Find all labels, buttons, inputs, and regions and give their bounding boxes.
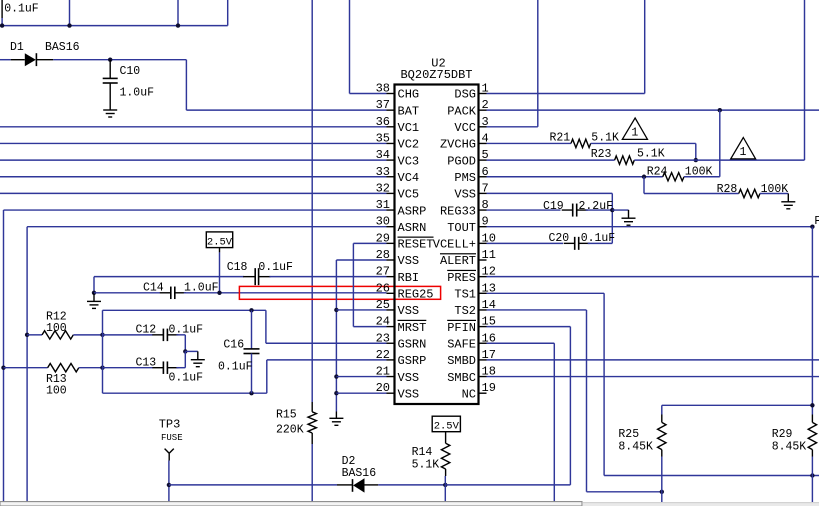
pin 5 PGOD stub xyxy=(479,159,487,161)
node junction xyxy=(810,225,814,229)
wire xyxy=(169,484,337,486)
pin 7 VSS stub xyxy=(479,192,487,194)
svg-text:1: 1 xyxy=(740,146,747,159)
wire xyxy=(586,209,613,211)
svg-text:1.0uF: 1.0uF xyxy=(120,87,155,100)
svg-text:SMBD: SMBD xyxy=(447,354,476,368)
resistor R25 xyxy=(661,415,663,423)
svg-text:C13: C13 xyxy=(136,356,157,369)
pin 32 VC5 stub xyxy=(387,192,395,194)
svg-text:TS1: TS1 xyxy=(454,288,476,302)
resistor R21 xyxy=(571,139,591,147)
node junction xyxy=(67,23,71,27)
svg-text:1: 1 xyxy=(631,126,638,139)
node junction xyxy=(183,349,187,353)
wire xyxy=(644,0,646,94)
wire pin 4 ZVCHG xyxy=(487,142,572,144)
wire to pin 27 RBI xyxy=(270,276,387,278)
node junction xyxy=(108,58,112,62)
capacitor C10 xyxy=(109,60,111,78)
wire xyxy=(79,367,103,369)
svg-text:R24: R24 xyxy=(647,166,668,179)
wire to pin 20 VSS xyxy=(336,392,386,394)
wire xyxy=(661,405,663,414)
wire to pin 35 VC2 xyxy=(0,142,387,144)
wire xyxy=(760,193,788,195)
pin 20 VSS stub xyxy=(387,392,395,394)
svg-text:19: 19 xyxy=(482,381,496,395)
ground xyxy=(93,293,95,301)
node junction xyxy=(610,208,614,212)
pin 27 RBI stub xyxy=(387,276,395,278)
op-amp U1 -> IC U2 body xyxy=(395,85,479,405)
svg-text:31: 31 xyxy=(376,198,390,212)
warning triangle 1 (second) xyxy=(731,138,756,159)
svg-text:R21: R21 xyxy=(550,131,571,144)
svg-text:0.1uF: 0.1uF xyxy=(4,2,39,15)
svg-text:RBI: RBI xyxy=(398,271,420,285)
wire xyxy=(661,457,663,503)
resistor R12 xyxy=(42,331,73,339)
svg-text:REG33: REG33 xyxy=(440,204,476,218)
svg-text:PRES: PRES xyxy=(447,271,476,285)
svg-text:2.2uF: 2.2uF xyxy=(579,200,614,213)
svg-text:37: 37 xyxy=(376,98,390,112)
pin 38 CHG stub xyxy=(387,93,395,95)
svg-text:TP3: TP3 xyxy=(159,418,181,432)
svg-text:SAFE: SAFE xyxy=(447,337,476,351)
pin 28 VSS stub xyxy=(387,259,395,261)
wire pin 10 VCELL+ xyxy=(487,242,564,244)
wire xyxy=(2,25,228,27)
wire xyxy=(445,432,447,444)
svg-text:R15: R15 xyxy=(276,408,297,421)
svg-text:F: F xyxy=(814,215,819,228)
wire xyxy=(445,484,570,486)
wire to pin 36 VC1 xyxy=(0,126,387,128)
svg-text:BQ20Z75DBT: BQ20Z75DBT xyxy=(400,68,472,82)
node junction xyxy=(660,490,664,494)
wire xyxy=(537,0,539,127)
wire xyxy=(3,210,5,502)
svg-text:VCELL+: VCELL+ xyxy=(433,238,476,252)
node junction xyxy=(443,483,447,487)
wire to pin 38 xyxy=(350,93,387,95)
svg-text:35: 35 xyxy=(376,131,390,145)
pin 14 TS2 stub xyxy=(479,309,487,311)
svg-text:29: 29 xyxy=(376,231,390,245)
wire to pin 25 VSS xyxy=(336,309,386,311)
node junction xyxy=(249,391,253,395)
wire to pin 37 xyxy=(186,109,386,111)
wire xyxy=(634,159,696,161)
highlight box around REG25 net xyxy=(239,286,440,299)
pin 34 VC3 stub xyxy=(387,159,395,161)
wire xyxy=(811,227,813,415)
svg-text:100: 100 xyxy=(46,322,67,335)
resistor R24 xyxy=(663,173,684,181)
wire xyxy=(695,143,697,160)
ground xyxy=(185,350,198,352)
svg-text:R23: R23 xyxy=(591,148,612,161)
wire xyxy=(26,227,28,502)
svg-text:ASRN: ASRN xyxy=(398,221,427,235)
scrollbar strip (decorative) xyxy=(0,502,582,506)
capacitor C19 xyxy=(562,209,573,211)
node junction xyxy=(249,308,253,312)
wire pin 14 TS2 xyxy=(487,309,587,311)
wire pin 17 SMBD xyxy=(487,359,819,361)
capacitor lead (partial, top-left) xyxy=(1,0,3,18)
svg-text:8.45K: 8.45K xyxy=(772,440,807,453)
wire xyxy=(1,18,3,26)
node junction xyxy=(810,403,814,407)
warning triangle 1 xyxy=(622,118,647,139)
capacitor C12 xyxy=(152,334,163,336)
wire xyxy=(644,193,739,195)
wire xyxy=(352,243,354,326)
resistor R15 xyxy=(311,402,313,412)
wire pin 7 VSS xyxy=(487,192,613,194)
wire xyxy=(184,335,186,352)
svg-text:DSG: DSG xyxy=(454,88,476,102)
svg-text:BAS16: BAS16 xyxy=(45,41,80,54)
node junction xyxy=(0,23,4,27)
wire to pin 32 VC5 xyxy=(0,192,387,194)
svg-text:100: 100 xyxy=(46,385,67,398)
svg-text:FUSE: FUSE xyxy=(161,433,183,443)
pin 21 VSS stub xyxy=(387,376,395,378)
capacitor C18 xyxy=(243,276,255,278)
svg-text:22: 22 xyxy=(376,348,390,362)
pin 2 PACK stub xyxy=(479,109,487,111)
svg-text:GSRN: GSRN xyxy=(398,337,427,351)
resistor R13 xyxy=(48,364,79,372)
node junction xyxy=(334,374,338,378)
wire xyxy=(53,59,186,61)
node junction xyxy=(334,391,338,395)
svg-text:23: 23 xyxy=(376,331,390,345)
wire xyxy=(73,334,102,336)
svg-text:ZVCHG: ZVCHG xyxy=(440,138,476,152)
svg-text:ASRP: ASRP xyxy=(398,204,427,218)
pin 22 GSRP stub xyxy=(387,359,395,361)
wire xyxy=(603,293,605,475)
svg-text:BAT: BAT xyxy=(398,104,420,118)
svg-text:0.1uF: 0.1uF xyxy=(258,261,293,274)
node junction xyxy=(100,333,104,337)
svg-text:VC2: VC2 xyxy=(398,138,420,152)
wire xyxy=(227,0,229,26)
svg-text:PMS: PMS xyxy=(454,171,476,185)
svg-text:D2: D2 xyxy=(342,455,356,468)
node junction xyxy=(1,366,5,370)
capacitor C13 xyxy=(152,367,163,369)
pin 36 VC1 stub xyxy=(387,126,395,128)
wire pin 18 SMBC xyxy=(487,376,819,378)
svg-text:0.1uF: 0.1uF xyxy=(169,372,204,385)
wire pin 1 DSG xyxy=(487,93,645,95)
wire xyxy=(444,476,446,502)
svg-text:SMBC: SMBC xyxy=(447,371,476,385)
wire xyxy=(696,159,805,161)
pin 9 TOUT stub xyxy=(479,226,487,228)
wire xyxy=(102,310,104,393)
wire pin 5 PGOD xyxy=(487,159,615,161)
wire to pin 21 VSS xyxy=(336,376,386,378)
pin 25 VSS stub xyxy=(387,309,395,311)
capacitor C14 xyxy=(160,292,171,294)
svg-text:C20: C20 xyxy=(549,232,570,245)
svg-text:24: 24 xyxy=(376,315,390,329)
pin 26 REG25 stub xyxy=(387,292,395,294)
svg-text:GSRP: GSRP xyxy=(398,354,427,368)
svg-text:C12: C12 xyxy=(136,324,157,337)
capacitor C16 xyxy=(251,310,253,348)
pin 19 NC stub xyxy=(479,392,487,394)
svg-text:PGOD: PGOD xyxy=(447,154,476,168)
wire xyxy=(378,484,445,486)
svg-text:5.1K: 5.1K xyxy=(591,131,619,144)
svg-text:0.1uF: 0.1uF xyxy=(169,324,204,337)
pin 13 TS1 stub xyxy=(479,292,487,294)
svg-text:R14: R14 xyxy=(412,446,433,459)
pin 12 PRES stub xyxy=(479,276,487,278)
svg-text:28: 28 xyxy=(376,248,390,262)
pin 10 VCELL+ stub xyxy=(479,242,487,244)
wire to pin 15 PFIN xyxy=(487,326,571,328)
wire xyxy=(643,177,645,194)
test point TP3 xyxy=(165,449,170,454)
node junction xyxy=(217,291,221,295)
svg-text:ALERT: ALERT xyxy=(440,254,476,268)
ground xyxy=(787,194,789,202)
diode D2 xyxy=(337,484,353,486)
wire to pin 33 VC4 xyxy=(0,176,387,178)
svg-text:32: 32 xyxy=(376,181,390,195)
ground xyxy=(628,210,630,218)
svg-text:PACK: PACK xyxy=(447,104,477,118)
pin 16 SAFE stub xyxy=(479,342,487,344)
wire xyxy=(103,334,154,336)
svg-text:2.5V: 2.5V xyxy=(207,236,233,248)
wire xyxy=(176,334,185,336)
svg-text:VSS: VSS xyxy=(398,371,420,385)
svg-text:34: 34 xyxy=(376,148,390,162)
pin 15 PFIN stub xyxy=(479,326,487,328)
node junction xyxy=(25,333,29,337)
svg-text:5.1K: 5.1K xyxy=(637,148,665,161)
pin 29 RESET stub xyxy=(387,242,395,244)
svg-text:38: 38 xyxy=(376,82,390,96)
node junction xyxy=(810,473,814,477)
node junction xyxy=(92,291,96,295)
svg-text:33: 33 xyxy=(376,165,390,179)
svg-text:VSS: VSS xyxy=(398,387,420,401)
wire xyxy=(93,277,95,293)
wire pin 8 REG33 xyxy=(487,209,561,211)
node junction xyxy=(176,23,180,27)
wire xyxy=(103,309,266,311)
svg-text:VC4: VC4 xyxy=(398,171,420,185)
wire xyxy=(103,367,154,369)
svg-text:BAS16: BAS16 xyxy=(342,467,377,480)
pin 35 VC2 stub xyxy=(387,142,395,144)
node junction xyxy=(642,175,646,179)
wire xyxy=(591,142,696,144)
svg-text:VC5: VC5 xyxy=(398,188,420,202)
svg-text:VSS: VSS xyxy=(454,188,476,202)
wire xyxy=(612,209,628,211)
wire xyxy=(94,276,244,278)
svg-text:5.1K: 5.1K xyxy=(412,459,440,472)
svg-text:36: 36 xyxy=(376,115,390,129)
svg-text:21: 21 xyxy=(376,365,390,379)
diode D1 xyxy=(11,59,25,61)
svg-text:220K: 220K xyxy=(276,424,304,437)
svg-text:30: 30 xyxy=(376,215,390,229)
svg-text:27: 27 xyxy=(376,265,390,279)
svg-text:VCC: VCC xyxy=(454,121,476,135)
pin 37 BAT stub xyxy=(387,109,395,111)
wire to pin 31 ASRP xyxy=(4,209,387,211)
wire pin 9 TOUT xyxy=(487,226,813,228)
pin 6 PMS stub xyxy=(479,176,487,178)
svg-text:8.45K: 8.45K xyxy=(618,440,653,453)
resistor R23 xyxy=(615,156,635,164)
wire xyxy=(588,242,613,244)
svg-text:RESET: RESET xyxy=(398,238,434,252)
svg-text:25: 25 xyxy=(376,298,390,312)
pin 17 SMBD stub xyxy=(479,359,487,361)
wire pin 2 PACK xyxy=(487,109,819,111)
wire xyxy=(176,367,185,369)
wire pin 16 SAFE xyxy=(487,342,555,344)
resistor R28 xyxy=(739,189,760,197)
wire to pin 34 VC3 xyxy=(0,159,387,161)
svg-text:VSS: VSS xyxy=(398,304,420,318)
wire xyxy=(553,343,555,502)
pin 11 ALERT stub xyxy=(479,259,487,261)
wire xyxy=(168,461,170,503)
svg-text:TOUT: TOUT xyxy=(447,221,476,235)
svg-text:15: 15 xyxy=(482,315,496,329)
svg-text:TS2: TS2 xyxy=(454,304,476,318)
node junction xyxy=(167,483,171,487)
wire xyxy=(569,327,571,485)
wire xyxy=(587,491,662,493)
svg-text:VC3: VC3 xyxy=(398,154,420,168)
wire xyxy=(586,310,588,492)
ground xyxy=(335,412,337,419)
svg-text:C10: C10 xyxy=(120,65,141,78)
pin 18 SMBC stub xyxy=(479,376,487,378)
capacitor C20 xyxy=(564,242,575,244)
svg-text:CHG: CHG xyxy=(398,88,420,102)
svg-text:VC1: VC1 xyxy=(398,121,420,135)
wire xyxy=(604,475,819,477)
wire to pin 26 REG25 xyxy=(184,292,387,294)
svg-text:REG25: REG25 xyxy=(398,288,434,302)
svg-text:D1: D1 xyxy=(10,41,24,54)
wire xyxy=(811,457,813,503)
pin 3 VCC stub xyxy=(479,126,487,128)
pin 8 REG33 stub xyxy=(479,209,487,211)
wire xyxy=(611,193,613,243)
wire to pin 22 GSRP xyxy=(267,359,387,361)
wire xyxy=(69,0,71,26)
resistor R14 xyxy=(441,443,449,469)
svg-text:2.5V: 2.5V xyxy=(434,421,460,433)
wire xyxy=(662,404,813,406)
wire pin 3 VCC xyxy=(487,126,538,128)
svg-text:26: 26 xyxy=(376,281,390,295)
ground xyxy=(103,109,117,111)
pin 33 VC4 stub xyxy=(387,176,395,178)
wire xyxy=(4,367,48,369)
pin 24 MRST stub xyxy=(387,326,395,328)
node junction xyxy=(694,158,698,162)
wire to pin 29 RESET xyxy=(353,242,386,244)
wire xyxy=(184,351,186,367)
power flag 2.5V xyxy=(206,232,232,248)
wire xyxy=(311,444,313,502)
wire xyxy=(684,176,720,178)
pin 1 DSG stub xyxy=(479,93,487,95)
wire pin 12 PRES xyxy=(487,276,819,278)
wire xyxy=(177,0,179,26)
power flag 2.5V xyxy=(432,416,460,432)
wire xyxy=(349,0,351,94)
wire xyxy=(311,0,313,402)
svg-text:NC: NC xyxy=(462,387,476,401)
svg-text:C18: C18 xyxy=(227,261,248,274)
wire xyxy=(266,360,268,393)
wire xyxy=(335,260,337,412)
svg-text:C14: C14 xyxy=(143,281,164,294)
svg-text:MRST: MRST xyxy=(398,321,427,335)
pin 23 GSRN stub xyxy=(387,342,395,344)
wire xyxy=(0,59,11,61)
wire to pin 30 ASRN xyxy=(27,226,386,228)
svg-text:20: 20 xyxy=(376,381,390,395)
node junction xyxy=(718,108,722,112)
svg-text:11: 11 xyxy=(482,248,496,262)
node junction xyxy=(100,366,104,370)
pin 31 ASRP stub xyxy=(387,209,395,211)
svg-text:R29: R29 xyxy=(772,428,793,441)
wire xyxy=(804,0,806,160)
svg-text:R25: R25 xyxy=(618,428,639,441)
svg-text:VSS: VSS xyxy=(398,254,420,268)
wire pin 13 TS1 xyxy=(487,292,605,294)
wire xyxy=(94,292,160,294)
wire xyxy=(265,310,267,343)
resistor R29 xyxy=(811,415,813,423)
wire xyxy=(219,248,221,253)
wire xyxy=(103,392,267,394)
svg-text:C16: C16 xyxy=(223,338,244,351)
pin 4 ZVCHG stub xyxy=(479,142,487,144)
wire xyxy=(719,110,721,177)
wire to pin 28 VSS xyxy=(336,259,386,261)
pin 30 ASRN stub xyxy=(387,226,395,228)
wire xyxy=(185,60,187,110)
svg-text:0.1uF: 0.1uF xyxy=(218,360,253,373)
wire to pin 24 MRST xyxy=(353,326,386,328)
wire to pin 23 GSRN xyxy=(266,342,387,344)
svg-text:PFIN: PFIN xyxy=(447,321,476,335)
